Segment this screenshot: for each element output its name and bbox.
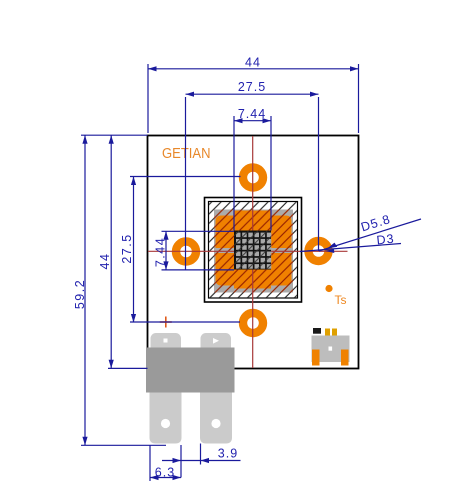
connector upper tab right — [201, 333, 232, 353]
dim 7.44 left: dimension line — [165, 231, 167, 270]
svg-text:27.5: 27.5 — [238, 80, 266, 94]
red centerline horizontal — [148, 250, 348, 252]
side connector orange leg left — [312, 350, 320, 366]
side connector white notch — [329, 347, 333, 351]
orange phosphor main area — [216, 216, 292, 286]
dim 44 top: extension lines — [147, 64, 149, 133]
red centerline vertical — [252, 136, 254, 368]
connector lower tab left — [150, 393, 182, 444]
side connector orange leg right — [341, 350, 349, 366]
dim 27.5 top arrows — [186, 92, 195, 97]
mounting hole bottom — [243, 313, 263, 333]
dim 6.3: extension line — [149, 445, 151, 481]
leader D3 arrowhead — [325, 249, 335, 253]
side connector yellow pin 2 — [332, 329, 337, 336]
svg-text:27.5: 27.5 — [120, 233, 134, 263]
Ts thermal sensor dot — [325, 285, 332, 292]
dim 7.44 top: dimension line — [234, 120, 271, 122]
dim 3.9: dimension line — [162, 460, 241, 462]
svg-text:3.9: 3.9 — [218, 447, 238, 461]
LED chip array — [234, 231, 271, 270]
dim 59.2: extension lines — [81, 134, 148, 136]
leader D5.8 line — [319, 219, 421, 251]
dim 44 left: dimension line — [110, 135, 112, 368]
black hatch on white margin — [209, 202, 297, 297]
dim 44 top: dimension line — [148, 68, 359, 70]
dim 59.2: dimension line — [84, 135, 86, 445]
svg-text:44: 44 — [98, 253, 112, 270]
dim 44 top arrows — [148, 66, 157, 71]
svg-text:Ts: Ts — [335, 293, 347, 307]
orange middle column — [234, 211, 271, 289]
svg-text:7.44: 7.44 — [154, 237, 168, 267]
svg-text:6.3: 6.3 — [155, 465, 175, 479]
dim 27.5 left arrows — [131, 177, 136, 186]
svg-text:7.44: 7.44 — [238, 107, 266, 121]
dim 6.3 arrows — [150, 475, 159, 480]
svg-text:D5.8: D5.8 — [359, 212, 392, 234]
connector lower tab right — [200, 393, 232, 444]
svg-text:GETIAN: GETIAN — [162, 146, 211, 162]
side connector black cap — [313, 328, 321, 334]
side connector yellow pin 1 — [325, 329, 330, 336]
side connector gray body — [312, 336, 350, 363]
leader D3 line — [300, 244, 401, 252]
leader D5.8 arrowhead — [328, 243, 338, 249]
svg-text:59.2: 59.2 — [73, 279, 87, 309]
arrowheads — [82, 66, 358, 480]
dim 7.44 left: extension lines — [162, 230, 235, 232]
orange cross marker — [160, 317, 172, 328]
svg-text:D3: D3 — [376, 232, 395, 248]
tab hole left — [161, 419, 170, 428]
gray substrate square — [214, 210, 293, 293]
dim 3.9: extension lines — [180, 445, 182, 478]
dim 27.5 left: dimension line — [133, 177, 135, 323]
dim 7.44 top arrows — [234, 118, 243, 123]
dim 27.5 left: extension lines — [130, 176, 241, 178]
polarity mark left — [164, 339, 168, 343]
maroon hatch over colored square — [214, 210, 293, 293]
LES square outer border — [205, 198, 302, 303]
dim 27.5 top: dimension line — [186, 93, 319, 95]
svg-text:44: 44 — [245, 56, 261, 70]
tab hole right — [211, 419, 220, 428]
dim 44 left arrows — [109, 135, 114, 144]
connector upper tab left — [151, 333, 182, 353]
gray mid stripe — [216, 248, 292, 253]
dim 44 left: bottom extension — [108, 367, 148, 369]
connector body block — [146, 348, 235, 393]
dim 27.5 top: extension lines — [185, 97, 187, 270]
body outline — [148, 136, 359, 369]
mounting hole right — [309, 241, 329, 261]
polarity mark right — [213, 338, 219, 344]
small side connector — [312, 328, 350, 366]
dim 6.3: dimension line — [150, 477, 181, 479]
dimension texts — [73, 56, 395, 480]
dim 59.2 arrows — [82, 135, 87, 144]
dim 7.44 top: extension lines — [233, 116, 235, 231]
dim 3.9 arrows (outside) — [173, 458, 182, 463]
mounting hole left — [176, 242, 196, 262]
LES square inner border — [209, 202, 298, 299]
mounting hole top — [243, 168, 263, 188]
dim 7.44 left arrows — [163, 231, 168, 240]
